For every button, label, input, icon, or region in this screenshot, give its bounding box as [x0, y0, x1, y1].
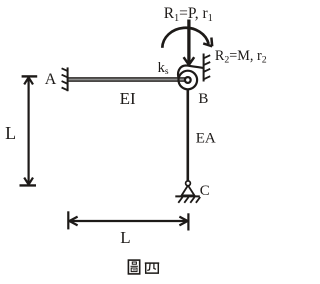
svg-text:EA: EA — [196, 130, 216, 146]
svg-text:A: A — [45, 71, 57, 88]
svg-text:R1=P, r1: R1=P, r1 — [164, 5, 213, 24]
svg-text:ks: ks — [158, 60, 169, 77]
svg-text:R2=M, r2: R2=M, r2 — [215, 48, 267, 65]
svg-text:EI: EI — [120, 89, 136, 108]
svg-text:L: L — [5, 123, 16, 143]
svg-text:B: B — [198, 91, 208, 107]
svg-text:C: C — [200, 183, 210, 199]
svg-text:L: L — [120, 228, 130, 247]
